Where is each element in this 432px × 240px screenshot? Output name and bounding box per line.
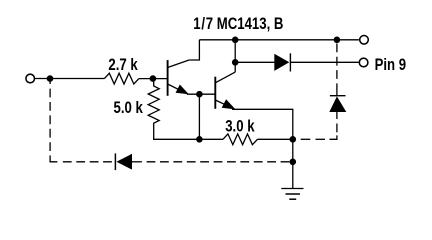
node top rail / clamp branch [334, 37, 341, 44]
wire D3 stub [132, 161, 142, 163]
wire top rail [199, 39, 359, 41]
wire 5.0k to bottom rail [154, 128, 200, 139]
terminal Pin 9 [359, 58, 368, 67]
diode D2 clamp [330, 95, 346, 97]
node bottom rail [196, 136, 203, 143]
arrow Q1 emitter [176, 85, 189, 95]
node Q2 base [196, 91, 203, 98]
node Q1 base [150, 75, 157, 82]
resistor 5.0 k [148, 80, 159, 128]
wire Q2 collector riser [234, 40, 236, 72]
output terminal [360, 36, 369, 45]
svg-text:1/7 MC1413, B: 1/7 MC1413, B [193, 15, 283, 34]
input terminal [26, 74, 35, 83]
diode D3 [114, 153, 116, 170]
node input junction [47, 75, 54, 82]
arrow Q2 emitter [222, 99, 236, 109]
wire Q1 collector riser [189, 40, 199, 60]
svg-text:2.7 k: 2.7 k [108, 56, 138, 75]
transistor Q1 [168, 60, 190, 96]
ground [281, 189, 303, 200]
wire dashed clamp branch lower [336, 112, 338, 119]
node pin9 rail / Q2 collector [232, 59, 239, 66]
node dashed rail [290, 159, 297, 166]
resistor 3.0 k [223, 134, 258, 145]
wire Q2 emitter run [232, 109, 293, 188]
wire dashed to D3 [63, 161, 114, 163]
wire 2.7k to Q1 base [139, 78, 168, 80]
wire dashed clamp branch upper [336, 44, 338, 90]
wire dashed input branch vertical [49, 79, 51, 156]
wire 3.0k to emitter node [258, 138, 293, 140]
resistor 2.7 k [104, 73, 138, 84]
transistor Q2 [215, 72, 235, 109]
wire dashed rail to ground node [147, 161, 293, 163]
diode D1 [274, 54, 289, 71]
svg-text:3.0 k: 3.0 k [225, 117, 255, 136]
wire Q2 base node down [198, 94, 200, 139]
wire input to 2.7k [35, 78, 105, 80]
wire pin9 rail left [235, 61, 275, 63]
svg-text:5.0 k: 5.0 k [114, 99, 144, 118]
wire pin9 rail right [291, 61, 359, 63]
node top rail / Q2 collector [232, 37, 239, 44]
wire bottom rail left [199, 138, 223, 140]
wire Q1 emitter to Q2 base [187, 93, 215, 95]
wire input branch corner [50, 156, 57, 162]
node emitter/3.0k [290, 136, 297, 143]
svg-text:Pin 9: Pin 9 [375, 55, 407, 74]
